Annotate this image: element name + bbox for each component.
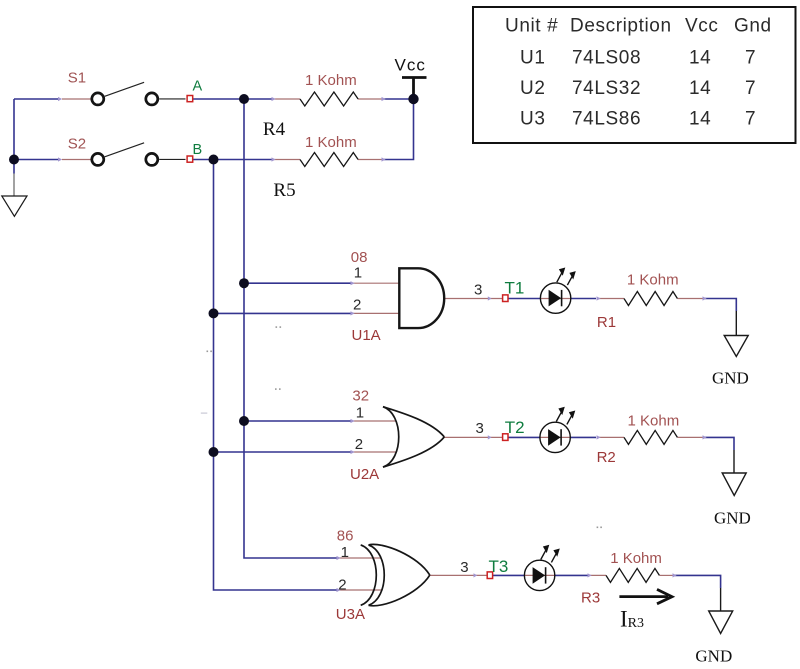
svg-text:1 Kohm: 1 Kohm <box>627 271 679 288</box>
svg-text:3: 3 <box>460 559 468 576</box>
svg-text:08: 08 <box>351 249 368 266</box>
svg-text:3: 3 <box>476 420 484 437</box>
svg-text:32: 32 <box>352 387 369 404</box>
svg-text:U3: U3 <box>520 109 546 130</box>
svg-text:S1: S1 <box>68 70 86 87</box>
svg-text:7: 7 <box>745 109 756 130</box>
svg-text:B: B <box>193 142 203 158</box>
svg-text:U1: U1 <box>520 48 546 69</box>
svg-text:U2: U2 <box>520 78 546 99</box>
svg-text:GND: GND <box>714 508 751 527</box>
svg-text:14: 14 <box>689 78 711 99</box>
svg-text:U2A: U2A <box>350 466 379 483</box>
svg-text:Vcc: Vcc <box>395 56 426 75</box>
svg-text:Vcc: Vcc <box>685 16 718 37</box>
svg-text:1: 1 <box>356 405 364 422</box>
svg-text:14: 14 <box>689 109 711 130</box>
svg-text:1 Kohm: 1 Kohm <box>628 413 680 430</box>
svg-text:R1: R1 <box>597 314 616 331</box>
svg-text:1 Kohm: 1 Kohm <box>305 134 357 151</box>
svg-text:7: 7 <box>745 48 756 69</box>
svg-text:1 Kohm: 1 Kohm <box>305 72 357 89</box>
svg-text:2: 2 <box>338 576 346 593</box>
svg-text:1: 1 <box>341 544 349 561</box>
svg-text:7: 7 <box>745 78 756 99</box>
svg-text:T2: T2 <box>505 418 525 437</box>
svg-text:14: 14 <box>689 48 711 69</box>
svg-text:U3A: U3A <box>336 606 365 623</box>
svg-text:GND: GND <box>695 647 732 666</box>
svg-text:Gnd: Gnd <box>734 16 772 37</box>
svg-text:1 Kohm: 1 Kohm <box>610 550 662 567</box>
svg-text:2: 2 <box>353 297 361 314</box>
svg-text:86: 86 <box>337 527 354 544</box>
svg-text:3: 3 <box>474 282 482 299</box>
svg-text:R2: R2 <box>597 449 616 466</box>
svg-text:Unit #: Unit # <box>505 16 558 37</box>
svg-text:GND: GND <box>712 369 749 388</box>
svg-text:2: 2 <box>355 436 363 453</box>
svg-text:74LS08: 74LS08 <box>572 48 641 69</box>
svg-text:A: A <box>193 79 203 95</box>
svg-text:R3: R3 <box>581 590 600 607</box>
svg-text:R5: R5 <box>273 180 295 201</box>
svg-text:U1A: U1A <box>352 327 381 344</box>
svg-text:74LS32: 74LS32 <box>572 78 641 99</box>
svg-text:T3: T3 <box>489 557 509 576</box>
svg-text:74LS86: 74LS86 <box>572 109 641 130</box>
svg-text:R4: R4 <box>263 119 286 140</box>
svg-text:Description: Description <box>570 16 672 37</box>
svg-text:S2: S2 <box>68 136 86 153</box>
svg-text:T1: T1 <box>505 279 525 298</box>
svg-text:1: 1 <box>354 265 362 282</box>
